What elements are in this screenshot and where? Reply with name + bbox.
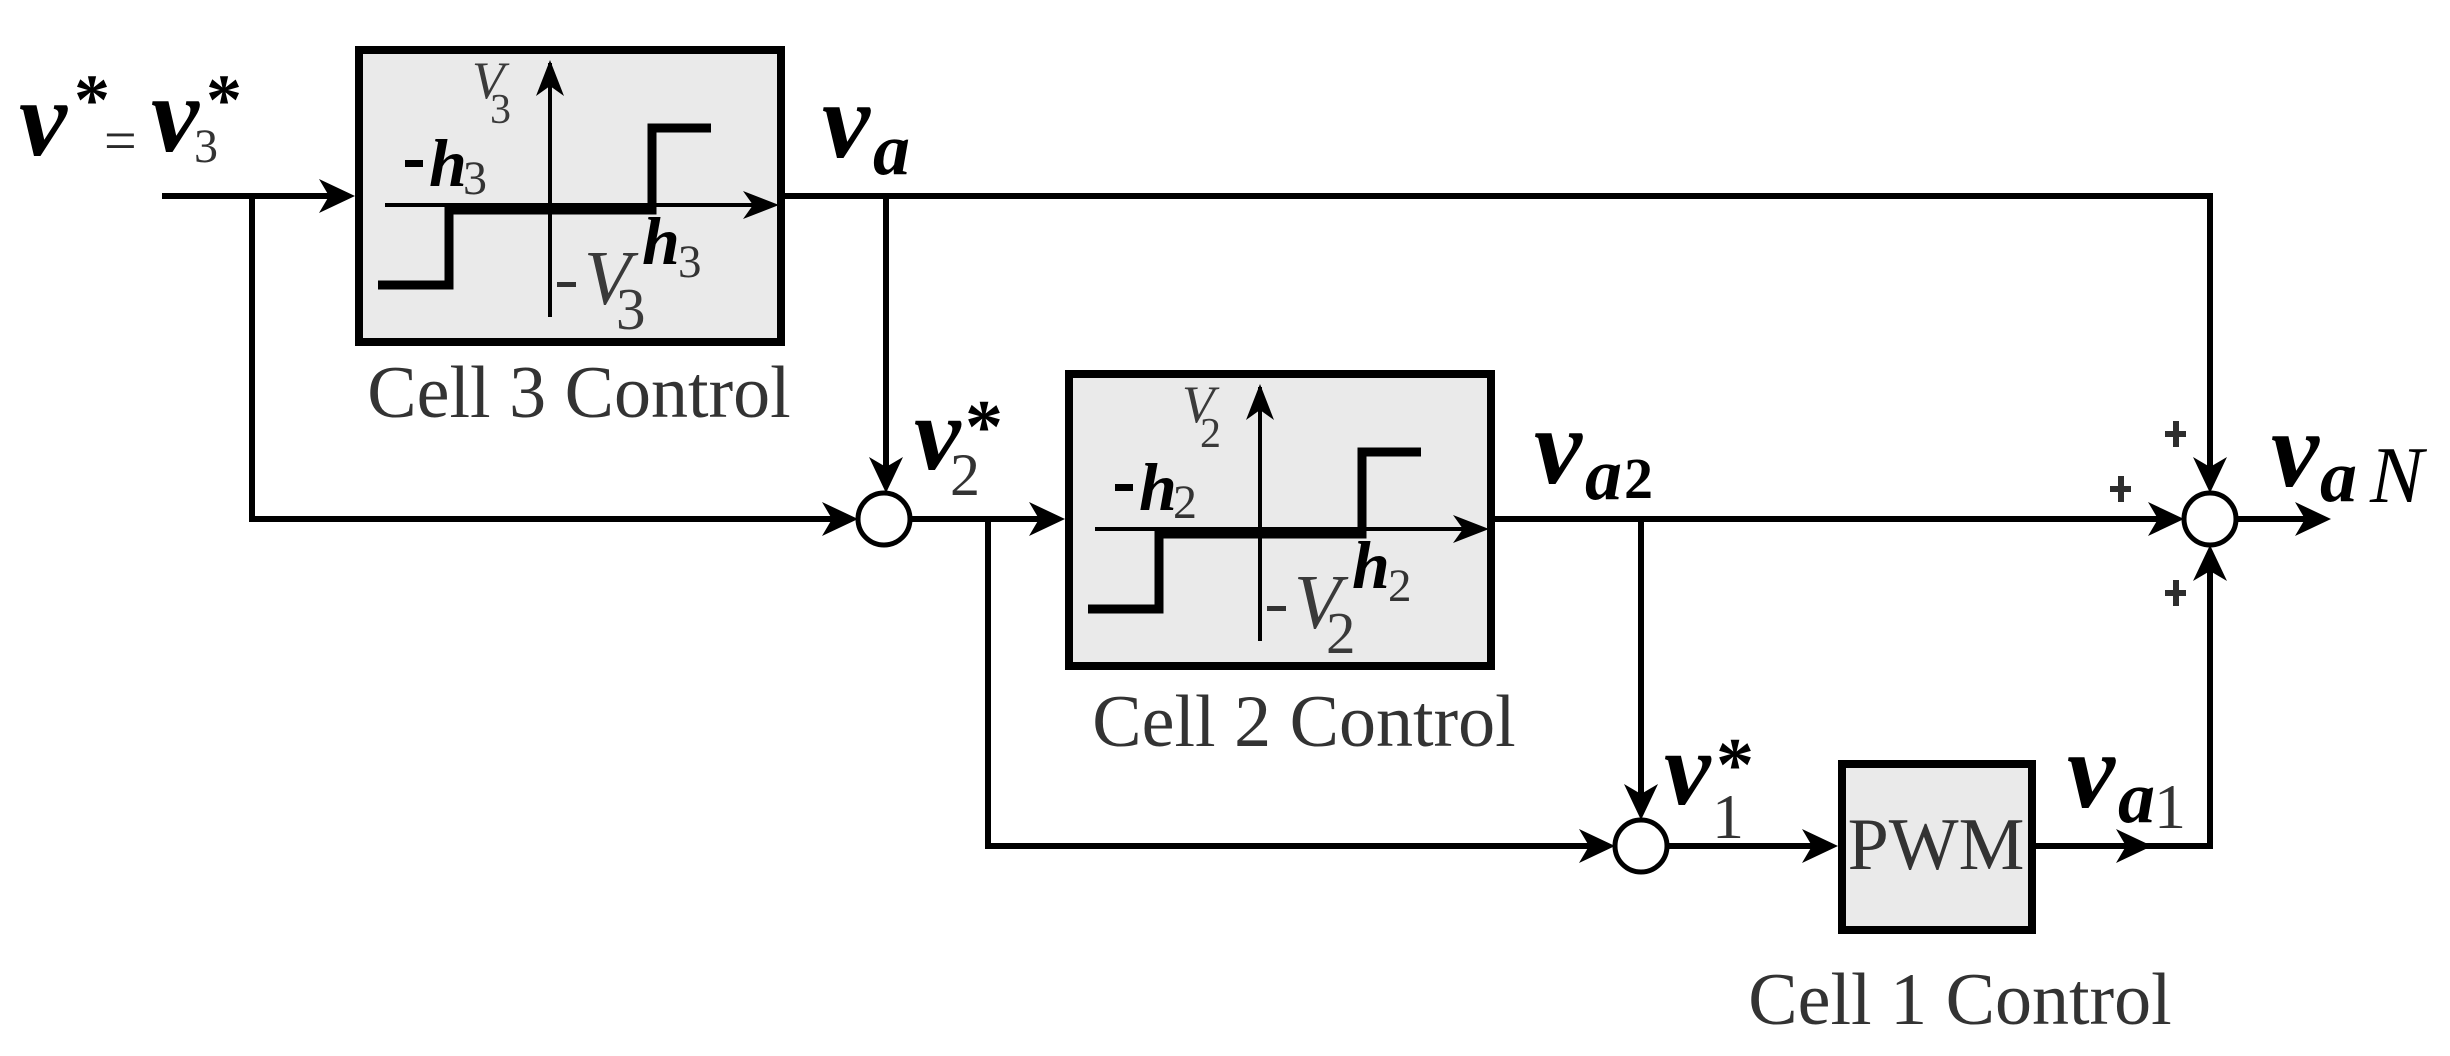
svg-text:Cell 2 Control: Cell 2 Control — [1092, 681, 1515, 763]
svg-text:Cell 3 Control: Cell 3 Control — [367, 352, 790, 434]
block Cell 2 Control box — [1069, 374, 1491, 666]
label va1 — [2067, 712, 2186, 842]
svg-text:3: 3 — [463, 152, 487, 205]
hysteresis curve of Cell 3 — [378, 60, 779, 317]
label plus bottom — [2165, 580, 2186, 606]
label va2 — [1534, 388, 1653, 516]
svg-text:a: a — [873, 109, 910, 191]
wire input to Cell 3 — [162, 193, 348, 199]
label vaN — [2271, 391, 2428, 520]
wire branch from v2* down to summing junction S2 — [988, 519, 1602, 846]
summing junction S2 — [1615, 820, 1667, 872]
svg-text:1: 1 — [1712, 781, 1744, 852]
svg-text:a: a — [2320, 436, 2357, 518]
wire va2 branch down to summing junction S2 — [1638, 519, 1644, 808]
wire branch from input down to summing junction S1 — [252, 196, 845, 519]
hysteresis curve of Cell 2 — [1088, 384, 1489, 641]
svg-text:N: N — [2369, 432, 2428, 520]
svg-text:v: v — [2271, 391, 2320, 510]
svg-text:Cell 1 Control: Cell 1 Control — [1748, 959, 2171, 1041]
label plus top — [2165, 421, 2186, 447]
wire va branch down to summing junction S1 — [883, 196, 889, 482]
svg-text:v: v — [19, 60, 68, 179]
svg-text:1: 1 — [2154, 771, 2186, 842]
label -h3 — [405, 160, 423, 167]
svg-text:2: 2 — [1326, 600, 1356, 666]
wire output vaN — [2236, 516, 2320, 522]
wire va1 from PWM to summing junction S3 — [2036, 557, 2210, 846]
svg-text:2: 2 — [1173, 476, 1197, 529]
label -V3 — [557, 282, 576, 287]
svg-text:3: 3 — [490, 87, 511, 133]
summing junction S3 — [2184, 493, 2236, 545]
svg-text:2: 2 — [1388, 560, 1412, 612]
svg-text:2: 2 — [1200, 411, 1221, 457]
wire S2 to PWM — [1667, 843, 1830, 849]
svg-text:3: 3 — [678, 236, 702, 288]
label plus left — [2110, 476, 2131, 502]
wire va from Cell 3 to summing junction S3 — [785, 196, 2210, 482]
svg-text:2: 2 — [950, 442, 980, 508]
svg-text:v: v — [1664, 710, 1712, 827]
svg-text:=: = — [104, 108, 137, 173]
block PWM box — [1842, 764, 2032, 930]
svg-text:3: 3 — [194, 120, 218, 173]
svg-text:h: h — [429, 125, 467, 201]
svg-text:v: v — [151, 56, 200, 175]
summing junction S1 — [858, 493, 910, 545]
svg-text:a: a — [2118, 757, 2155, 839]
block Cell 3 Control box — [359, 50, 781, 342]
svg-text:h: h — [642, 203, 680, 279]
wire S1 to Cell 2 — [910, 516, 1058, 522]
svg-text:h: h — [1139, 449, 1177, 525]
label -V2 — [1267, 606, 1286, 611]
wire va2 from Cell 2 to summing junction S3 — [1495, 516, 2171, 522]
label v1* — [1664, 710, 1754, 852]
svg-text:2: 2 — [1624, 446, 1653, 511]
svg-text:h: h — [1352, 527, 1390, 603]
svg-text:v: v — [1534, 388, 1583, 507]
label v2* — [914, 375, 1003, 508]
label -h2 — [1115, 484, 1133, 491]
label va — [822, 62, 910, 191]
svg-text:PWM: PWM — [1848, 804, 2025, 886]
svg-text:3: 3 — [616, 276, 646, 342]
svg-text:a: a — [1585, 434, 1622, 516]
svg-text:v: v — [2067, 712, 2116, 831]
svg-text:v: v — [822, 62, 871, 181]
label input v* = v3* — [19, 56, 242, 179]
